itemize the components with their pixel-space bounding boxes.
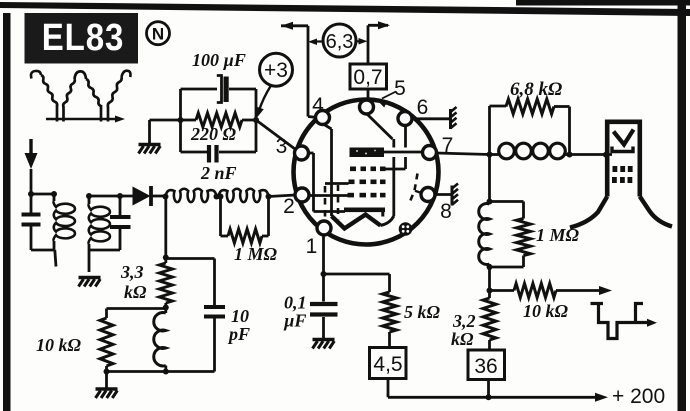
wire bottom bus [107, 370, 215, 373]
pin label 3 [276, 135, 288, 158]
grid g2 row [349, 180, 386, 185]
tube pin 5 [360, 100, 374, 114]
CRT cathode bar [612, 147, 633, 152]
resistor R2 3,3 kΩ [159, 258, 172, 308]
node 3.3k top [163, 255, 169, 261]
label 3,2 kΩ [451, 311, 476, 349]
wire to CRT [570, 153, 613, 156]
grid g1 row [348, 193, 386, 198]
label 1 MΩ left [234, 244, 278, 264]
wire pin4 to heater [324, 125, 332, 217]
chassis ground pin6 [451, 107, 457, 129]
wire RC left rail [179, 89, 182, 152]
capacitor C4 100 µF [181, 76, 257, 103]
wire pin1 down [322, 235, 325, 274]
wire pin7 out [437, 153, 490, 155]
wire 10k top link [107, 307, 166, 310]
node label +3 [257, 53, 293, 117]
wire anode to pin7 [384, 151, 423, 154]
box 36 value [468, 350, 505, 380]
capacitor C3 10 pF [166, 259, 225, 372]
tube pin 1 [317, 221, 331, 235]
heater filament [332, 215, 394, 229]
svg-text:4: 4 [312, 94, 324, 117]
capacitor C5 2 nF [181, 145, 257, 163]
svg-text:10 kΩ: 10 kΩ [523, 301, 569, 321]
wire tank2 top [89, 195, 133, 198]
svg-text:1 MΩ: 1 MΩ [536, 225, 580, 245]
wire L4 to pin2 [269, 195, 296, 197]
node tank2 top [86, 193, 123, 199]
resistor R6 6,8 kΩ with loop [490, 99, 570, 155]
wire heater right with arrow [368, 21, 390, 64]
pin label 8 [440, 200, 452, 223]
node at CRT wall [603, 152, 609, 158]
wire pin6 to chassis [412, 117, 450, 120]
tube envelope circle [294, 100, 439, 245]
svg-text:kΩ: kΩ [124, 282, 147, 302]
cathode [344, 208, 385, 217]
wire grid g3 to pin6 [386, 126, 406, 170]
ground RC network [139, 145, 161, 154]
resistor R7 1 MΩ right [490, 202, 531, 268]
wire RC to ground [150, 120, 181, 143]
capacitor C6 0,1 µF [310, 274, 338, 338]
pin label 2 [283, 195, 295, 218]
label 3,3 kΩ [120, 262, 147, 302]
node output [487, 288, 493, 294]
label 10 kΩ right [523, 301, 569, 321]
label 1 MΩ right [536, 225, 580, 245]
capacitor C2 (tank2) [110, 196, 131, 250]
dashed line pin8 internal [409, 174, 422, 205]
label 220 Ω [190, 124, 237, 144]
label 10 kΩ left [36, 335, 82, 355]
svg-text:µF: µF [283, 311, 306, 331]
wire pin8 to chassis [435, 193, 452, 196]
label 10 pF [227, 306, 250, 344]
label 5 kΩ [404, 302, 441, 322]
wire heater left with arrow [281, 22, 316, 118]
svg-text:0,7: 0,7 [353, 66, 382, 89]
label 2 nF [200, 163, 237, 183]
pin label 4 [312, 94, 324, 117]
label 0,1 µF [283, 293, 307, 331]
svg-text:6: 6 [417, 96, 429, 119]
node RC left [178, 117, 184, 123]
svg-text:2: 2 [283, 195, 295, 218]
wire pin5 to heater [368, 115, 394, 217]
pin label 5 with leader [378, 77, 406, 108]
wire tank1 top [31, 193, 54, 196]
svg-text:EL83: EL83 [42, 16, 124, 59]
svg-text:0,1: 0,1 [284, 293, 307, 313]
label 100 µF [192, 50, 246, 70]
label N circle [147, 22, 170, 45]
dashed line g2 to pin1 [324, 186, 327, 221]
resistor R5 5 kΩ [383, 292, 397, 348]
svg-text:5: 5 [394, 77, 406, 100]
tube pin 9 spigot (crossed) [399, 222, 413, 236]
wire pin3 to cathode [309, 153, 346, 212]
grid g3 row [350, 167, 386, 172]
capacitor C1 (tank1) [22, 194, 41, 250]
wire diode node down [164, 197, 167, 258]
node between coils [214, 194, 220, 200]
wire +3 node to pin3 [256, 120, 297, 151]
box 4,5 value [370, 348, 407, 379]
pin label 1 [306, 235, 318, 258]
tube pin 4 [316, 111, 330, 125]
inductor L2 (tank2) [89, 196, 110, 250]
resistor R1 1 MΩ grid leak [221, 197, 269, 244]
tube pin 3 [295, 146, 309, 160]
svg-text:6,3: 6,3 [326, 31, 354, 53]
svg-text:5 kΩ: 5 kΩ [404, 302, 441, 322]
node coil bottom right [487, 264, 493, 270]
svg-text:2 nF: 2 nF [200, 163, 237, 183]
node 10k bottom [104, 369, 110, 375]
svg-text:36: 36 [474, 355, 497, 378]
tube pin 8 [421, 188, 435, 202]
label 6,8 kΩ [510, 79, 562, 100]
resistor R4 220 Ω [181, 113, 257, 127]
svg-text:pF: pF [227, 324, 250, 344]
wire 10k to ground [105, 372, 108, 389]
icon sync pulse waveform [591, 304, 658, 339]
svg-text:100 µF: 100 µF [192, 50, 246, 70]
svg-text:+3: +3 [264, 59, 288, 82]
svg-text:10 kΩ: 10 kΩ [36, 335, 82, 355]
node L4 ends [218, 194, 272, 200]
wire 4,5 to rail [387, 379, 390, 398]
inductor L6 peaking coil [490, 143, 570, 159]
node diode out [163, 194, 169, 200]
node 3.3k bottom [163, 305, 169, 311]
svg-text:3,2: 3,2 [452, 311, 476, 331]
wire RC right rail [255, 89, 258, 152]
box 0,7 value [350, 64, 387, 100]
node L5 bottom [163, 369, 169, 375]
node 6.8k left [487, 152, 493, 158]
ground left network [96, 389, 118, 398]
tube pin 6 [398, 112, 412, 126]
node label 6,3 volts [308, 24, 368, 57]
node coil top right [487, 199, 493, 205]
wire tank2 to ground [88, 250, 91, 272]
dashed internal line [337, 185, 340, 220]
wire 36 to rail [487, 380, 490, 398]
pin label 6 [417, 96, 429, 119]
diode D1 [133, 186, 166, 206]
pin label 7 [442, 134, 454, 157]
CRT deflection V mark [614, 130, 634, 145]
node rail [486, 394, 492, 400]
wire pin1 to 5k [324, 274, 390, 292]
resistor R8 10 kΩ output [490, 284, 613, 298]
wire tank2 bottom [89, 249, 120, 252]
svg-text:3: 3 [276, 135, 288, 158]
svg-text:+ 200: + 200 [612, 385, 665, 408]
node +3 junction [253, 117, 259, 123]
ground 0,1 µF [313, 340, 335, 349]
CRT neck [570, 122, 672, 228]
icon sawtooth waveform [31, 71, 130, 123]
node pin1 junction [321, 271, 327, 277]
ground tank2 [79, 278, 101, 287]
label EL83 title box [25, 13, 139, 64]
node tank1 top [28, 191, 57, 197]
inductor L7 [479, 204, 490, 267]
wire tank1 bottom [31, 250, 56, 267]
tube pin 7 [423, 146, 437, 160]
svg-text:220 Ω: 220 Ω [190, 124, 237, 144]
svg-text:10: 10 [231, 306, 249, 326]
wire to 10k node [488, 267, 491, 291]
input signal arrow [25, 139, 38, 194]
chassis ground pin8 [452, 184, 458, 206]
wire node down [488, 155, 491, 202]
svg-text:4,5: 4,5 [373, 353, 402, 376]
anode plate [350, 148, 385, 158]
tube pin 2 [295, 188, 309, 202]
svg-text:6,8 kΩ: 6,8 kΩ [510, 79, 562, 100]
inductor L1 (tank1) [54, 194, 75, 250]
svg-text:3,3: 3,3 [120, 262, 144, 282]
inductor L3 [166, 189, 217, 202]
CRT grid dots [612, 166, 633, 183]
resistor R3 10 kΩ left [100, 309, 113, 372]
wire pin2 to grid g1 [309, 194, 348, 197]
svg-text:N: N [152, 25, 164, 44]
svg-text:kΩ: kΩ [451, 329, 474, 349]
svg-text:8: 8 [440, 200, 452, 223]
svg-text:1: 1 [306, 235, 318, 258]
wire grid g2 connector [325, 182, 349, 185]
inductor L4 [219, 189, 269, 202]
inductor L5 [154, 308, 166, 372]
supply rail +200 [388, 385, 665, 408]
resistor R9 3,2 kΩ [483, 291, 496, 351]
node 6.8k right [567, 152, 573, 158]
svg-text:1 MΩ: 1 MΩ [234, 244, 278, 264]
